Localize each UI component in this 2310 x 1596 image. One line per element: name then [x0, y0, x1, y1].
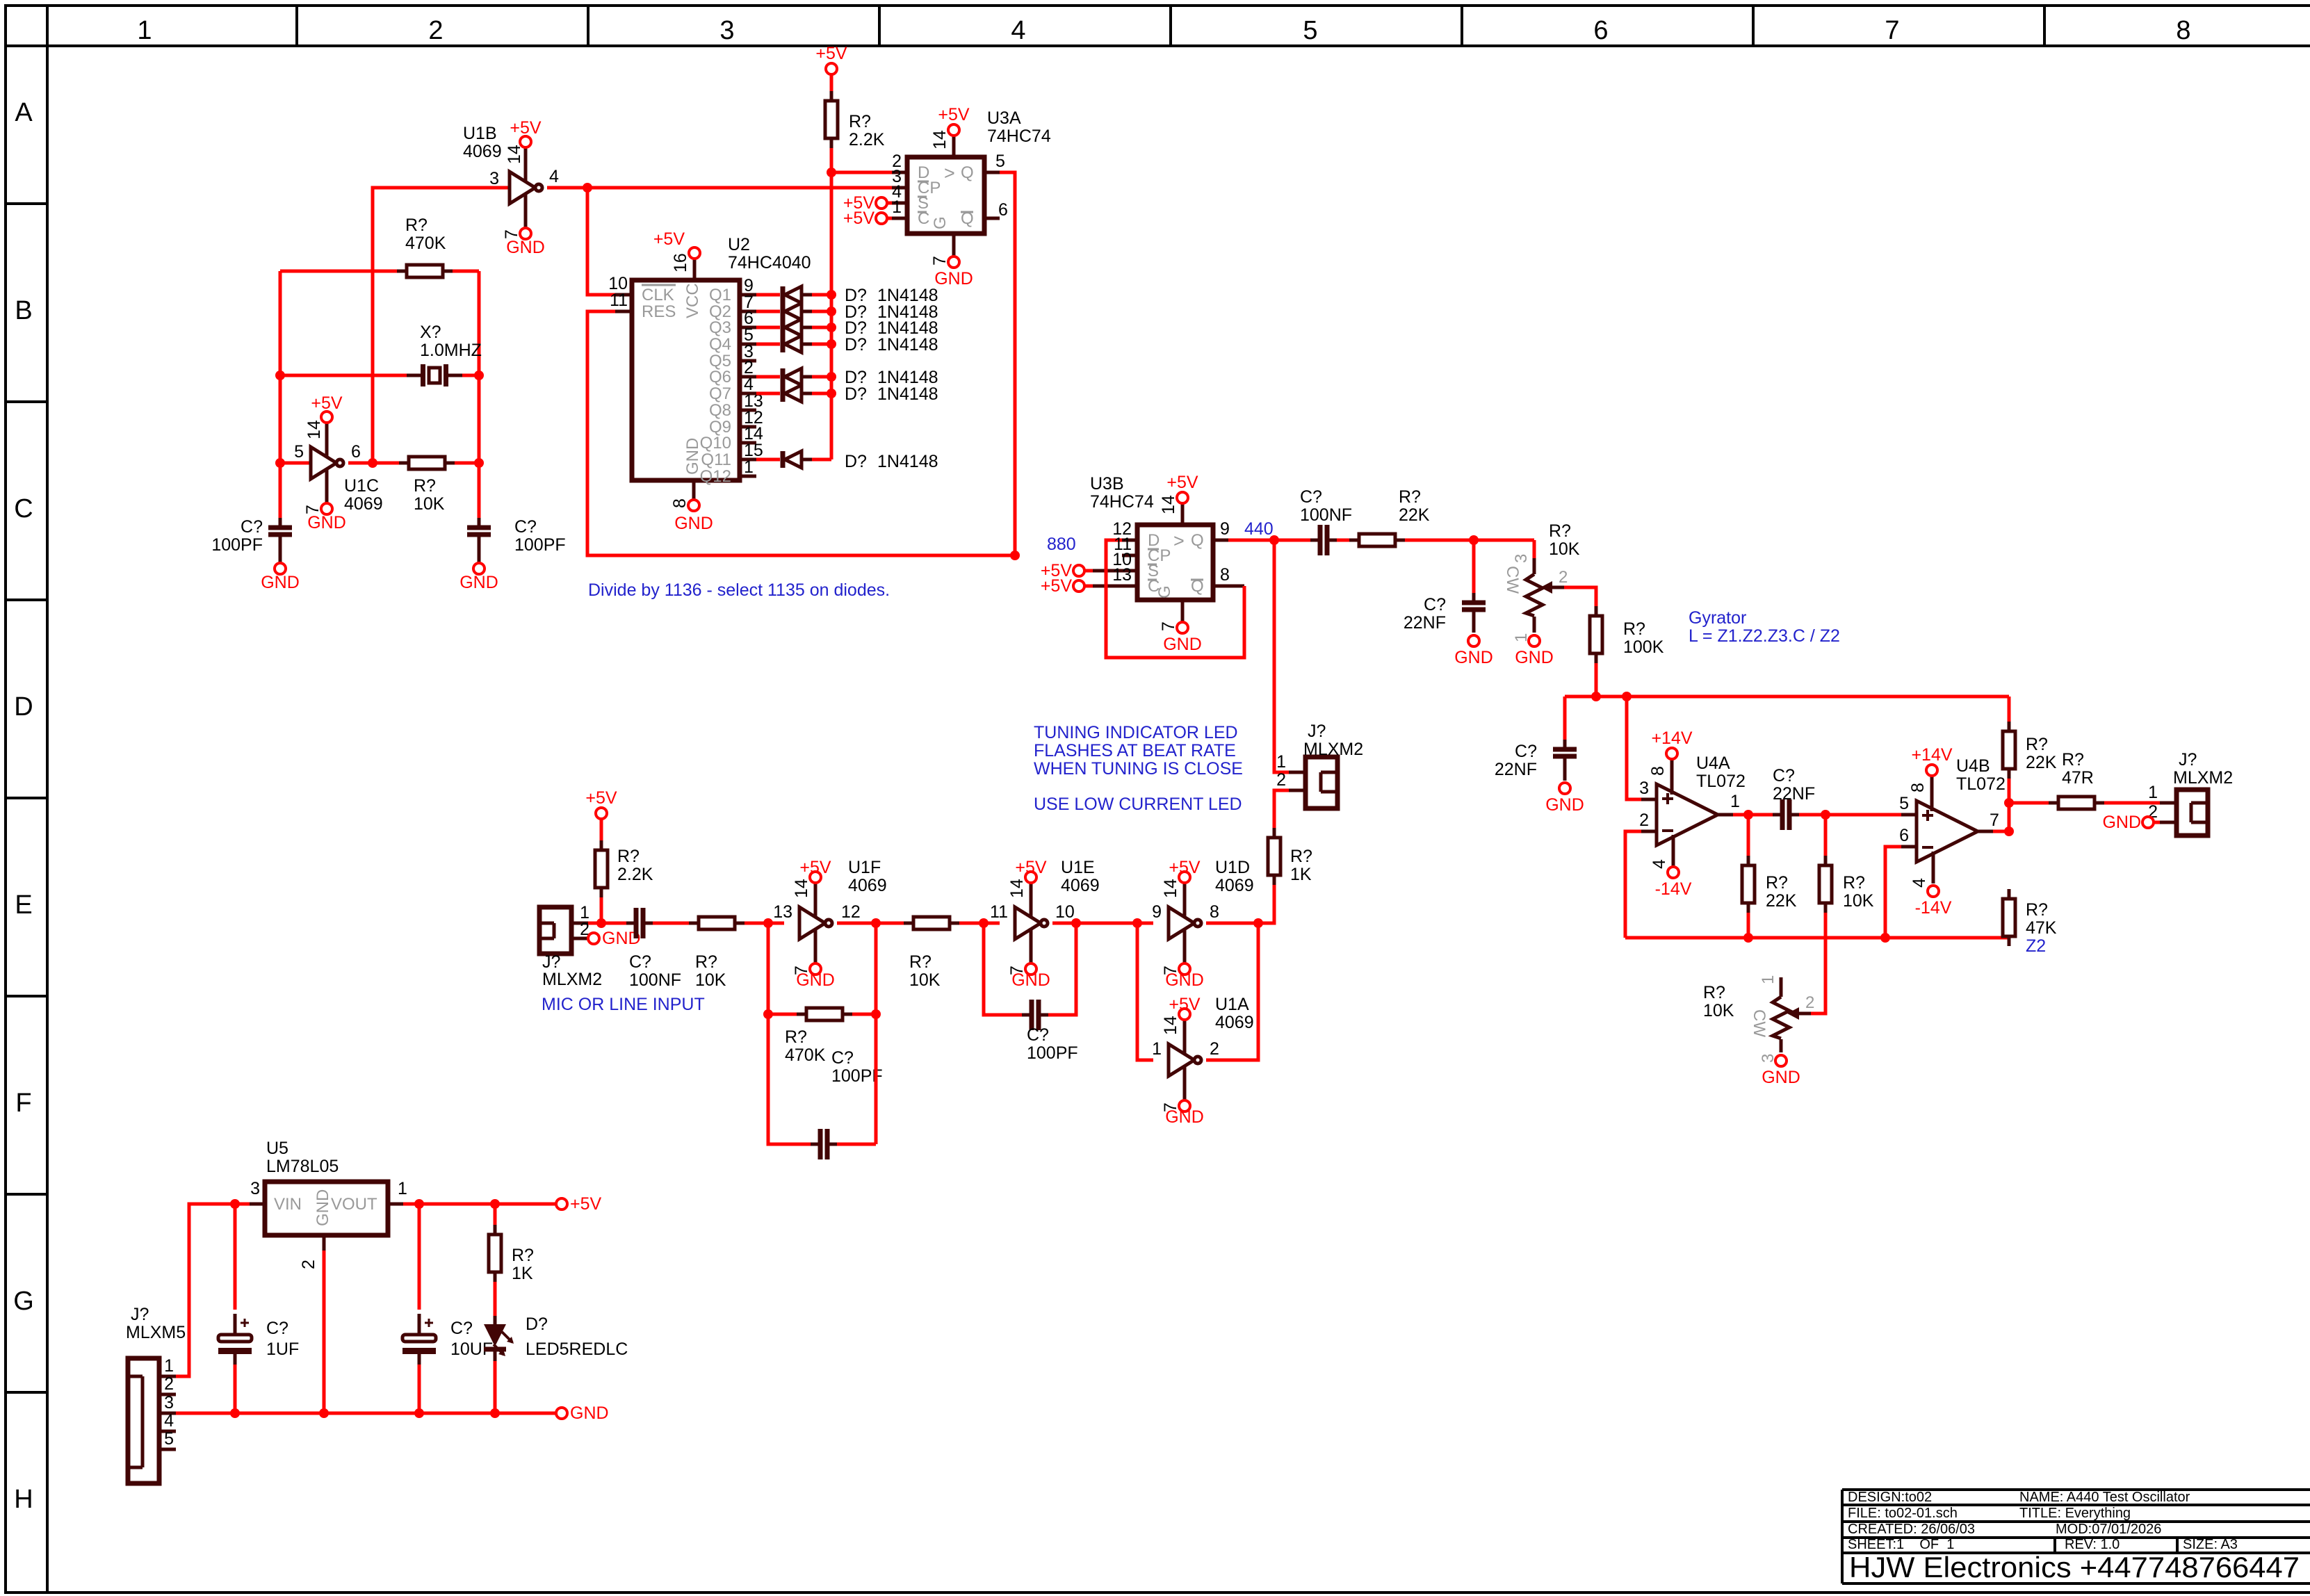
- capacitor C? 100NF input: [626, 908, 681, 990]
- wire U1B output to junction: [547, 186, 587, 190]
- ground GND left 100PF: [261, 563, 300, 592]
- svg-text:11: 11: [990, 902, 1008, 922]
- wire bus to U3A D pin 2: [831, 171, 892, 174]
- svg-text:L = Z1.Z2.Z3.C / Z2: L = Z1.Z2.Z3.C / Z2: [1689, 626, 1840, 646]
- svg-text:1: 1: [1152, 1039, 1162, 1059]
- svg-text:GND: GND: [570, 1403, 609, 1423]
- wire R1K to LED jack pin 2: [1274, 790, 1289, 828]
- svg-text:+5V: +5V: [570, 1194, 602, 1214]
- svg-text:3: 3: [164, 1393, 174, 1412]
- svg-text:4069: 4069: [848, 876, 887, 895]
- svg-text:1.0MHZ: 1.0MHZ: [420, 341, 482, 360]
- node R100K junction: [1591, 692, 1601, 701]
- node rail R22K junction: [1743, 933, 1753, 943]
- svg-text:J?: J?: [542, 952, 560, 972]
- svg-text:+5V: +5V: [1169, 995, 1201, 1014]
- node mic input junction: [596, 918, 606, 928]
- svg-text:Q3: Q3: [709, 318, 731, 337]
- potentiometer R? 10K filter: [1503, 521, 1580, 642]
- wire U1A output to U1D output: [1206, 923, 1258, 1060]
- inverter U1D: [1169, 883, 1201, 963]
- pin labels MLXM5: [164, 1356, 174, 1449]
- svg-text:C?: C?: [629, 952, 651, 972]
- svg-text:470K: 470K: [405, 234, 446, 253]
- power +5V U3B pin 14: [1159, 473, 1198, 514]
- wire VOUT rail: [403, 1203, 556, 1206]
- IC U2 74HC4040: [615, 235, 811, 500]
- wire U3A Q pin5 down to net 880: [1000, 172, 1015, 555]
- svg-text:16: 16: [671, 253, 690, 272]
- node U1D input junction: [1132, 918, 1142, 928]
- svg-text:14: 14: [1007, 879, 1027, 898]
- svg-text:R?: R?: [1290, 847, 1312, 866]
- svg-text:5: 5: [1303, 16, 1317, 45]
- label U1A 4069: [1215, 995, 1254, 1032]
- wire U1F feedback left rail: [768, 923, 811, 1144]
- power +5V U3B pin 13: [1041, 576, 1093, 596]
- svg-text:TL072: TL072: [1956, 774, 2006, 794]
- svg-text:14: 14: [1159, 495, 1178, 514]
- diode D? 1N4148 on Q3: [756, 319, 831, 336]
- svg-text:14: 14: [1161, 879, 1180, 898]
- node net 880 junction: [1010, 551, 1020, 560]
- svg-text:R?: R?: [1766, 873, 1788, 893]
- svg-text:U1F: U1F: [848, 858, 881, 877]
- svg-text:22NF: 22NF: [1773, 784, 1815, 804]
- svg-text:1N4148: 1N4148: [877, 452, 938, 471]
- inverter U1B: [510, 147, 542, 228]
- svg-text:440: 440: [1244, 519, 1274, 539]
- svg-text:FILE: to02-01.sch: FILE: to02-01.sch: [1848, 1506, 1958, 1521]
- svg-text:+5V: +5V: [1166, 473, 1198, 492]
- svg-text:B: B: [15, 296, 32, 325]
- wire gyrator bottom rail: [1625, 936, 2009, 940]
- svg-text:GND: GND: [314, 1189, 332, 1226]
- svg-text:5: 5: [1899, 794, 1909, 813]
- svg-text:13: 13: [1112, 565, 1132, 585]
- power and ground U1D: [1161, 858, 1204, 990]
- svg-text:Q6: Q6: [709, 368, 731, 386]
- svg-text:VOUT: VOUT: [331, 1195, 377, 1214]
- label CLK RES pin names: [642, 285, 676, 321]
- svg-text:+5V: +5V: [1015, 858, 1047, 877]
- wire pot wiper to R100K: [1564, 587, 1596, 606]
- wire U3B Q pin 9 output: [1228, 539, 1274, 542]
- svg-text:CW: CW: [1503, 566, 1522, 594]
- wire junction down to pot R10K: [1533, 540, 1536, 558]
- svg-text:R?: R?: [849, 112, 871, 131]
- svg-text:2: 2: [1805, 993, 1814, 1012]
- svg-text:GND: GND: [1011, 970, 1050, 990]
- svg-text:4069: 4069: [344, 494, 383, 514]
- svg-text:U3A: U3A: [987, 108, 1021, 128]
- svg-text:4: 4: [164, 1411, 174, 1431]
- svg-text:U1D: U1D: [1215, 858, 1250, 877]
- ground GND U3A pin 7: [930, 256, 973, 288]
- node R1K junction: [490, 1199, 500, 1209]
- svg-text:LM78L05: LM78L05: [266, 1157, 339, 1176]
- power +5V U3B pin 10: [1041, 561, 1093, 580]
- wire R22K to junction: [1405, 539, 1534, 542]
- resistor R? 2.2K pull-up: [825, 91, 885, 149]
- node C10UF junction: [414, 1199, 424, 1209]
- label D? 1N4148 Q6: [845, 368, 938, 387]
- svg-text:VIN: VIN: [274, 1195, 302, 1214]
- svg-text:MLXM2: MLXM2: [2173, 768, 2233, 788]
- svg-text:1: 1: [164, 1356, 174, 1376]
- svg-text:-14V: -14V: [1915, 898, 1952, 918]
- wire down to U4A pin 3: [1627, 697, 1641, 799]
- svg-text:1: 1: [2148, 783, 2158, 802]
- svg-text:FLASHES AT BEAT RATE: FLASHES AT BEAT RATE: [1034, 741, 1236, 760]
- svg-text:R?: R?: [1623, 619, 1645, 639]
- svg-text:A: A: [15, 98, 33, 127]
- label U1C 4069: [344, 476, 383, 514]
- wire U5 pin2 to GND rail: [323, 1251, 326, 1413]
- svg-text:4069: 4069: [463, 142, 502, 161]
- wire U1C out: [348, 462, 399, 465]
- labels U3A pin names: [918, 163, 974, 229]
- svg-text:+14V: +14V: [1651, 728, 1692, 748]
- node output junction: [2004, 798, 2014, 808]
- svg-text:C?: C?: [514, 517, 537, 537]
- resistor R? 22K filter: [1349, 487, 1430, 546]
- svg-text:LED5REDLC: LED5REDLC: [526, 1339, 628, 1359]
- svg-text:3: 3: [489, 169, 499, 188]
- svg-text:CW: CW: [1750, 1009, 1768, 1037]
- node U4B plus junction: [1821, 810, 1830, 820]
- svg-text:6: 6: [1899, 826, 1909, 845]
- svg-text:4: 4: [549, 167, 559, 186]
- connector J? MLXM2 tuning LED: [1289, 757, 1337, 808]
- resistor R? 1K power LED: [489, 1204, 534, 1316]
- svg-text:CLK: CLK: [642, 286, 674, 304]
- svg-text:10: 10: [1055, 902, 1075, 922]
- svg-text:Q: Q: [1191, 531, 1204, 550]
- ground GND mic jack: [588, 929, 641, 948]
- wire U4B pin 6 to rail: [1885, 847, 1901, 938]
- wire U3B D loopback from Q-bar: [1106, 540, 1244, 658]
- svg-text:10K: 10K: [414, 494, 445, 514]
- svg-text:U3B: U3B: [1090, 474, 1124, 494]
- svg-text:USE LOW CURRENT LED: USE LOW CURRENT LED: [1034, 795, 1242, 814]
- svg-text:100NF: 100NF: [1300, 505, 1352, 525]
- connector J? MLXM2 output: [2160, 790, 2208, 836]
- diode D? 1N4148 on Q11: [756, 451, 831, 468]
- svg-text:47R: 47R: [2062, 768, 2094, 788]
- svg-text:1: 1: [1276, 752, 1286, 772]
- wire 470K row right: [453, 270, 479, 273]
- wire net U1C.out to U1B.in: [373, 188, 510, 463]
- labels Q1-Q12 pin names: [700, 286, 731, 486]
- svg-text:880: 880: [1047, 535, 1076, 554]
- svg-text:GND: GND: [2102, 813, 2141, 832]
- svg-text:+5V: +5V: [510, 118, 542, 138]
- potentiometer R? 10K level: [1703, 975, 1814, 1063]
- svg-text:11: 11: [610, 291, 628, 310]
- svg-text:D: D: [14, 692, 33, 722]
- svg-text:14: 14: [505, 145, 524, 164]
- svg-text:U2: U2: [728, 235, 750, 254]
- svg-text:7: 7: [1885, 16, 1899, 45]
- note tuning indicator: [1034, 723, 1243, 814]
- svg-text:8: 8: [1220, 565, 1230, 585]
- svg-text:MLXM2: MLXM2: [542, 970, 602, 989]
- svg-text:H: H: [14, 1485, 33, 1514]
- svg-text:GND: GND: [1454, 648, 1493, 667]
- svg-text:R?: R?: [1549, 521, 1571, 541]
- wire 440 to C100NF: [1274, 539, 1310, 542]
- svg-text:GND: GND: [796, 970, 835, 990]
- IC U3A 74HC74: [892, 108, 1051, 256]
- svg-text:74HC74: 74HC74: [987, 127, 1051, 146]
- power +5V top of R2.2K: [815, 44, 847, 74]
- IC U5 LM78L05: [250, 1139, 403, 1251]
- svg-text:MOD:07/01/2026: MOD:07/01/2026: [2056, 1522, 2161, 1537]
- svg-text:1: 1: [398, 1179, 407, 1198]
- wire U1F output: [837, 922, 904, 925]
- wire C100NF to R22K: [1337, 539, 1349, 542]
- svg-text:C?: C?: [1300, 487, 1322, 507]
- svg-text:CREATED: 26/06/03: CREATED: 26/06/03: [1848, 1522, 1975, 1537]
- wire U4B output: [1993, 830, 2009, 833]
- svg-text:U4B: U4B: [1956, 756, 1990, 776]
- node VIN junction: [230, 1199, 240, 1209]
- svg-text:8: 8: [1648, 766, 1668, 776]
- node right rail junction: [474, 458, 484, 468]
- pin numbers U2 Q outputs: [744, 276, 763, 477]
- svg-text:R?: R?: [695, 952, 717, 972]
- wire U1A input leg: [1137, 923, 1153, 1060]
- capacitor C? 100PF right: [467, 517, 566, 563]
- node LED GND junction: [490, 1408, 500, 1418]
- svg-text:GND: GND: [1165, 1107, 1204, 1127]
- svg-text:GND: GND: [934, 269, 973, 288]
- svg-text:R?: R?: [785, 1027, 807, 1047]
- svg-text:MIC OR LINE INPUT: MIC OR LINE INPUT: [542, 995, 705, 1014]
- node U5 GND junction: [319, 1408, 329, 1418]
- svg-text:13: 13: [773, 902, 792, 922]
- svg-text:2: 2: [1559, 568, 1568, 587]
- wire U1B.out to U3A CP pin 3: [587, 186, 892, 190]
- svg-text:74HC4040: 74HC4040: [728, 253, 811, 272]
- svg-text:+5V: +5V: [799, 858, 831, 877]
- ground GND U1B pin 7: [502, 228, 545, 257]
- svg-text:100K: 100K: [1623, 637, 1664, 657]
- connector J? MLXM5 power input: [128, 1358, 176, 1483]
- svg-text:SHEET:1 OF 1: SHEET:1 OF 1: [1848, 1537, 1954, 1552]
- ground GND C22NF 2: [1545, 783, 1584, 815]
- inverter U1A: [1169, 1020, 1201, 1100]
- wire R10K to right rail: [455, 462, 479, 465]
- svg-text:G: G: [931, 216, 950, 229]
- node U1D out junction: [1253, 918, 1263, 928]
- resistor R? 47K Z2: [2003, 889, 2057, 956]
- svg-text:2.2K: 2.2K: [849, 130, 885, 149]
- wire output junction to R47R: [2009, 801, 2049, 805]
- resistor R? 10K gyrator: [1807, 815, 1874, 1013]
- svg-text:5: 5: [995, 152, 1005, 171]
- inverter U1C: [311, 423, 343, 503]
- ground GND right 100PF: [459, 563, 498, 592]
- power +5V U2 pin 16: [653, 229, 700, 272]
- wire U4A output: [1733, 813, 1773, 817]
- svg-text:1K: 1K: [1290, 865, 1312, 884]
- wire +5V to R2.2K: [830, 74, 833, 91]
- node U1C out junction: [368, 458, 377, 468]
- wire crystal row right: [462, 374, 479, 377]
- resistor R? 1K LED: [1268, 828, 1312, 885]
- svg-text:C: C: [14, 494, 33, 523]
- capacitor C? 100PF left: [211, 517, 292, 563]
- label D? 1N4148 Q4: [845, 335, 938, 355]
- svg-text:+14V: +14V: [1911, 745, 1952, 765]
- ground GND U1C pin 7: [303, 503, 346, 532]
- svg-text:Divide by 1136 - select 1135 o: Divide by 1136 - select 1135 on diodes.: [588, 580, 890, 600]
- svg-text:U1C: U1C: [344, 476, 379, 496]
- power and ground U1A: [1161, 995, 1204, 1127]
- diode D? 1N4148 on Q2: [756, 303, 831, 320]
- svg-text:GND: GND: [1165, 970, 1204, 990]
- svg-text:9: 9: [1152, 902, 1162, 922]
- wire U4A pin 2 feedback: [1625, 831, 1641, 938]
- svg-text:100PF: 100PF: [514, 535, 566, 555]
- node U4A input junction: [1622, 692, 1632, 701]
- power +14V U4A pin 8: [1648, 728, 1693, 776]
- svg-text:X?: X?: [420, 323, 441, 342]
- svg-text:C?: C?: [1773, 766, 1795, 785]
- svg-text:2: 2: [299, 1260, 318, 1269]
- power +5V mic bias: [585, 788, 617, 819]
- label J? MLXM2 LED: [1303, 722, 1363, 759]
- node bus junction Q2: [827, 307, 836, 316]
- svg-text:Z2: Z2: [2026, 936, 2046, 956]
- svg-text:7: 7: [1990, 811, 1999, 830]
- wire right rail: [478, 271, 481, 518]
- svg-text:GND: GND: [307, 513, 346, 532]
- node bus junction Q7: [827, 389, 836, 398]
- labels U3B pin names: [1148, 530, 1204, 598]
- node U1E input junction: [979, 918, 989, 928]
- node bus junction Q3: [827, 323, 836, 332]
- connector J? MLXM2 mic input: [539, 907, 588, 954]
- node bus junction Q1: [827, 290, 836, 300]
- svg-text:REV: 1.0: REV: 1.0: [2065, 1537, 2120, 1552]
- ground GND pot 1: [1515, 635, 1554, 667]
- svg-text:C?: C?: [1027, 1025, 1049, 1045]
- svg-text:TL072: TL072: [1696, 772, 1746, 791]
- svg-text:GND: GND: [1545, 795, 1584, 815]
- svg-text:1N4148: 1N4148: [877, 335, 938, 355]
- wire C22NF to U4B pin 5: [1799, 813, 1901, 817]
- title block: [1842, 1490, 2310, 1583]
- resistor R? 100K: [1590, 606, 1664, 663]
- svg-text:GND: GND: [1762, 1068, 1800, 1087]
- svg-text:D?: D?: [845, 384, 867, 404]
- svg-text:R?: R?: [1399, 487, 1421, 507]
- svg-text:R?: R?: [1843, 873, 1865, 893]
- svg-text:22NF: 22NF: [1404, 613, 1446, 633]
- svg-text:1: 1: [1759, 975, 1778, 984]
- svg-text:C?: C?: [266, 1319, 288, 1338]
- svg-text:5: 5: [294, 442, 304, 462]
- diode D? 1N4148 on Q4: [756, 336, 831, 352]
- power +5V U3A pin 14: [930, 105, 970, 149]
- node crystal left junction: [275, 370, 285, 380]
- svg-text:C?: C?: [831, 1048, 854, 1068]
- wire left rail: [279, 271, 282, 518]
- svg-text:Q1: Q1: [709, 286, 731, 304]
- power -14V U4B pin 4: [1910, 878, 1952, 918]
- node bus junction Q6: [827, 372, 836, 382]
- svg-text:6: 6: [998, 200, 1008, 220]
- svg-text:R?: R?: [512, 1246, 534, 1265]
- svg-text:+5V: +5V: [1041, 576, 1073, 596]
- wire R100K to gyrator rail: [1595, 663, 1598, 697]
- power -14V U4A pin 4: [1650, 859, 1692, 899]
- node U1F input junction: [763, 918, 773, 928]
- power +14V U4B pin 8: [1908, 745, 1953, 792]
- svg-text:+5V: +5V: [815, 44, 847, 63]
- wire U2 RES pin 11 to net 880: [587, 311, 1015, 555]
- svg-text:3: 3: [719, 16, 734, 45]
- svg-text:-14V: -14V: [1655, 879, 1692, 899]
- svg-text:C?: C?: [1515, 742, 1537, 761]
- svg-text:10K: 10K: [909, 970, 941, 990]
- power +5V output terminal: [556, 1194, 602, 1214]
- svg-text:22NF: 22NF: [1495, 760, 1537, 779]
- svg-text:+5V: +5V: [311, 393, 343, 413]
- svg-text:1K: 1K: [512, 1264, 533, 1283]
- svg-text:Q7: Q7: [709, 384, 731, 403]
- wire mic pin1 to input node: [588, 922, 626, 925]
- svg-text:2: 2: [164, 1374, 174, 1394]
- svg-text:GND: GND: [674, 514, 713, 533]
- svg-text:2.2K: 2.2K: [617, 865, 653, 884]
- svg-text:Q8: Q8: [709, 401, 731, 420]
- svg-text:1N4148: 1N4148: [877, 384, 938, 404]
- svg-text:U1E: U1E: [1061, 858, 1095, 877]
- svg-text:GND: GND: [459, 573, 498, 592]
- svg-text:>: >: [944, 163, 955, 184]
- node C1UF GND junction: [230, 1408, 240, 1418]
- svg-text:8: 8: [2176, 16, 2190, 45]
- svg-text:100NF: 100NF: [629, 970, 681, 990]
- ground GND U3B pin 7: [1159, 621, 1202, 654]
- resistor R? 22K output: [2003, 697, 2057, 831]
- svg-text:J?: J?: [2179, 750, 2197, 769]
- label U1B 4069: [463, 124, 502, 161]
- svg-text:E: E: [15, 890, 32, 920]
- wire R10K to U1F input: [745, 922, 784, 925]
- label U1F 4069: [848, 858, 887, 895]
- labels U5 pin names: [274, 1189, 377, 1226]
- label D? 1N4148 Q2: [845, 302, 938, 322]
- svg-text:5: 5: [164, 1429, 174, 1449]
- svg-text:1UF: 1UF: [266, 1339, 299, 1359]
- svg-text:1: 1: [892, 197, 902, 217]
- wire GND rail: [176, 1412, 556, 1415]
- svg-text:10K: 10K: [1703, 1001, 1734, 1020]
- wire U1C input: [280, 462, 311, 465]
- svg-text:2: 2: [428, 16, 443, 45]
- svg-text:4069: 4069: [1215, 876, 1254, 895]
- svg-text:8: 8: [670, 498, 690, 508]
- svg-text:10K: 10K: [1549, 539, 1580, 559]
- capacitor C? 100PF feedback U1E: [1022, 1000, 1078, 1063]
- node rail U4B junction: [1880, 933, 1890, 943]
- IC U3B 74HC74: [1090, 474, 1244, 622]
